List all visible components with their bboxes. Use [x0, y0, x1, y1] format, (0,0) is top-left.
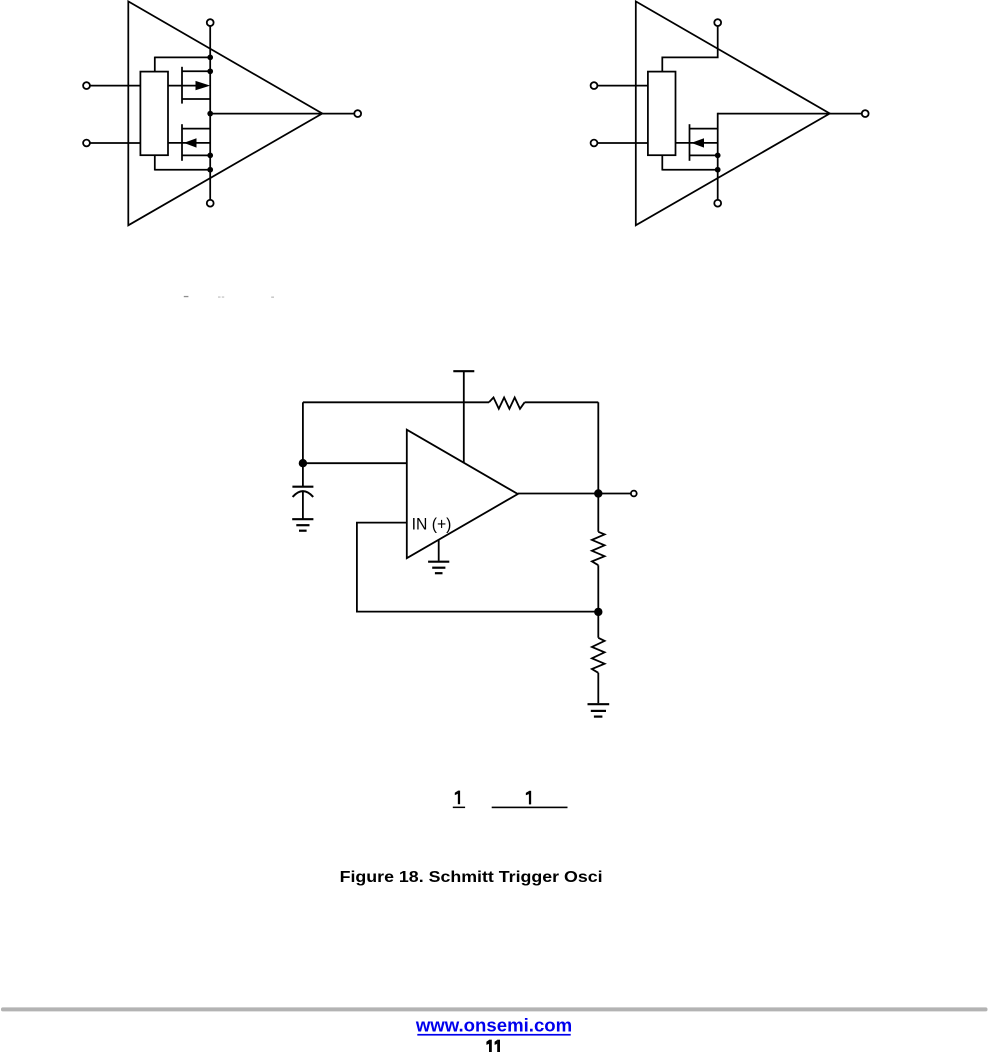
svg-text:Figure 18. Schmitt Trigger Osc: Figure 18. Schmitt Trigger Osci: [340, 869, 603, 886]
svg-text:IN (+): IN (+): [412, 514, 452, 533]
svg-text:www.onsemi.com: www.onsemi.com: [415, 1014, 572, 1035]
